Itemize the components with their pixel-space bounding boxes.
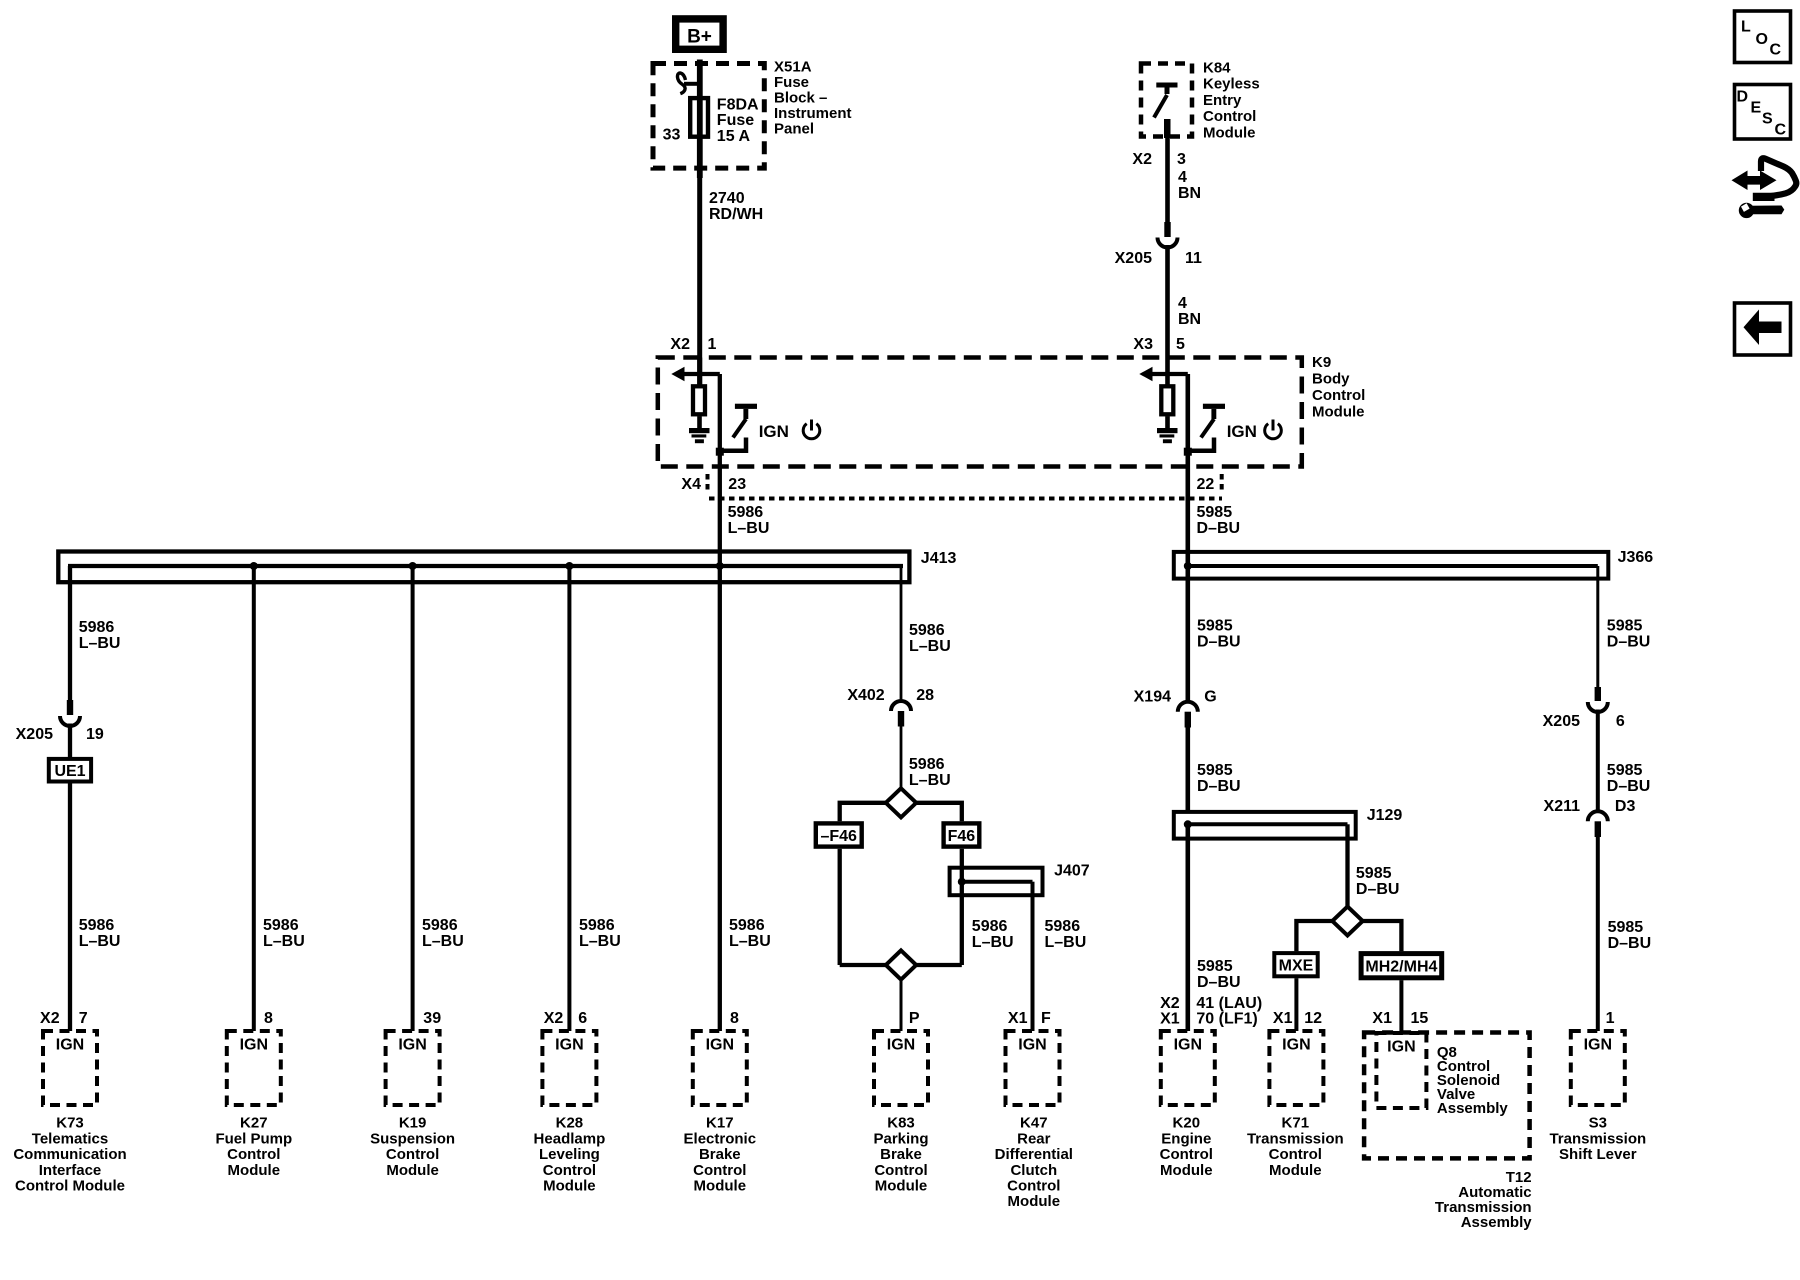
- svg-text:L–BU: L–BU: [1045, 934, 1087, 951]
- svg-text:5: 5: [1176, 336, 1185, 353]
- module K71 dashed box: [1269, 1031, 1323, 1105]
- svg-text:IGN: IGN: [1227, 422, 1257, 441]
- svg-text:S: S: [1762, 110, 1773, 127]
- svg-text:BN: BN: [1178, 185, 1201, 202]
- connector X4 left dash: [706, 474, 710, 494]
- svg-text:Control: Control: [874, 1162, 927, 1179]
- svg-text:C: C: [1775, 121, 1787, 138]
- svg-text:L–BU: L–BU: [729, 933, 771, 950]
- pin label X4 23: [681, 476, 746, 493]
- keyless entry module K84 dashed box: [1141, 64, 1192, 137]
- svg-text:5985: 5985: [1356, 865, 1392, 882]
- svg-text:X4: X4: [681, 476, 701, 493]
- svg-text:5986: 5986: [729, 917, 765, 934]
- wire label 5985 D-BU (K20): [1197, 958, 1241, 991]
- svg-text:3: 3: [1177, 151, 1186, 168]
- svg-text:J407: J407: [1054, 862, 1090, 879]
- wire label 5985 D-BU (J129 branch): [1356, 865, 1400, 898]
- svg-text:L–BU: L–BU: [422, 933, 464, 950]
- splice pack J366 inner bus bar: [1188, 564, 1598, 568]
- wire label 5986 L-BU (K47 branch): [1045, 918, 1087, 951]
- pin label X2 1 (K9 left input): [670, 336, 716, 353]
- wire 4 BN lower segment: [1165, 245, 1170, 358]
- icon LOC box: [1735, 11, 1791, 63]
- wire splice to -F46: [840, 803, 886, 821]
- wire K27 column: [252, 566, 256, 1031]
- svg-text:X1: X1: [1372, 1010, 1392, 1027]
- svg-text:8: 8: [730, 1010, 739, 1027]
- module K27 dashed box: [227, 1031, 281, 1105]
- internal arrow right: [1139, 367, 1188, 381]
- svg-text:F: F: [1041, 1010, 1051, 1027]
- junction dot J413/K28: [565, 562, 573, 570]
- svg-text:1: 1: [1606, 1010, 1615, 1027]
- switch inside K84: [1154, 83, 1178, 139]
- wire 2740 RD/WH: [697, 168, 702, 384]
- ignition switch right: [1188, 404, 1225, 451]
- icon wrench: [1739, 203, 1785, 218]
- svg-text:IGN: IGN: [240, 1037, 268, 1054]
- wire F46 down through J407: [960, 849, 964, 965]
- wire J366 to X205-6: [1596, 566, 1599, 687]
- svg-text:S3: S3: [1589, 1115, 1607, 1132]
- inline connector X194 pin G: [1178, 702, 1198, 728]
- wire J407 to K47: [1031, 882, 1035, 1031]
- connector X4 dotted bottom line: [709, 497, 1222, 501]
- wire J413 to X402: [900, 566, 903, 701]
- main right drop wire (pin 22 to X194): [1186, 374, 1191, 702]
- svg-text:J366: J366: [1618, 549, 1654, 566]
- connector label X205 19: [16, 726, 104, 743]
- svg-text:X194: X194: [1134, 689, 1171, 706]
- svg-text:X1: X1: [1273, 1010, 1293, 1027]
- svg-text:X51A: X51A: [774, 58, 812, 75]
- svg-text:Control: Control: [1269, 1146, 1322, 1163]
- svg-text:Leveling: Leveling: [539, 1146, 600, 1163]
- wire K28 column: [567, 566, 571, 1031]
- wire J129 to K20: [1186, 824, 1191, 1031]
- module K47 dashed box: [1006, 1031, 1060, 1105]
- junction dot J366: [1184, 562, 1192, 570]
- svg-text:K27: K27: [240, 1115, 268, 1132]
- fuse option box -F46: [816, 823, 862, 846]
- wire label 4 BN: [1178, 169, 1201, 202]
- svg-text:70 (LF1): 70 (LF1): [1196, 1010, 1257, 1027]
- svg-text:11: 11: [1185, 250, 1202, 267]
- inline connector X205 pin 11: [1158, 222, 1178, 248]
- svg-text:15 A: 15 A: [717, 128, 751, 145]
- svg-text:33: 33: [663, 127, 681, 144]
- svg-text:12: 12: [1304, 1010, 1322, 1027]
- wire label 5986 L-BU (K83 branch): [972, 918, 1014, 951]
- svg-text:L–BU: L–BU: [263, 933, 305, 950]
- module K83 dashed box: [874, 1031, 928, 1105]
- svg-text:IGN: IGN: [1387, 1039, 1415, 1056]
- option box MH2/MH4: [1361, 954, 1442, 978]
- svg-text:IGN: IGN: [1282, 1037, 1310, 1054]
- svg-text:22: 22: [1197, 476, 1215, 493]
- svg-text:B+: B+: [687, 27, 712, 48]
- svg-text:D–BU: D–BU: [1356, 881, 1400, 898]
- svg-text:19: 19: [86, 726, 104, 743]
- svg-text:5986: 5986: [79, 619, 115, 636]
- svg-text:4: 4: [1178, 169, 1187, 186]
- svg-text:Control: Control: [1203, 108, 1256, 125]
- svg-text:–F46: –F46: [820, 828, 857, 845]
- wire label 5986 L-BU (pin 23): [728, 504, 770, 537]
- svg-text:5985: 5985: [1197, 958, 1233, 975]
- wire label 5986 L-BU (K28 column): [579, 917, 621, 950]
- svg-text:Control: Control: [693, 1162, 746, 1179]
- wire label 5985 D-BU (pin 22): [1197, 504, 1241, 537]
- pin label X2 41 (LAU): [1160, 995, 1262, 1012]
- svg-text:Keyless: Keyless: [1203, 76, 1260, 93]
- wire K19 column: [411, 566, 415, 1031]
- svg-text:X211: X211: [1544, 798, 1581, 815]
- fuse block X51A dashed box: [653, 64, 764, 169]
- svg-text:D3: D3: [1615, 798, 1636, 815]
- pin label X2 3: [1132, 151, 1186, 168]
- internal arrow left (circuit continues): [671, 367, 720, 381]
- svg-text:P: P: [909, 1010, 920, 1027]
- wire B+ feed into fuse block: [697, 60, 703, 179]
- wire X2-1 into resistor: [697, 358, 702, 386]
- label K20 Engine Control Module: [1160, 1115, 1213, 1179]
- svg-text:Control Module: Control Module: [15, 1178, 125, 1195]
- junction dot J129: [1184, 820, 1192, 828]
- svg-text:Shift Lever: Shift Lever: [1559, 1146, 1637, 1163]
- wire label 5986 L-BU (bus left): [79, 619, 121, 652]
- svg-text:L–BU: L–BU: [579, 933, 621, 950]
- svg-text:Control: Control: [1160, 1146, 1213, 1163]
- module S3 dashed box: [1571, 1031, 1625, 1105]
- svg-text:MH2/MH4: MH2/MH4: [1365, 959, 1437, 976]
- svg-text:5985: 5985: [1608, 919, 1644, 936]
- option box MXE: [1274, 953, 1317, 976]
- svg-text:D–BU: D–BU: [1607, 634, 1651, 651]
- svg-text:Fuse: Fuse: [774, 74, 809, 91]
- svg-text:5986: 5986: [579, 917, 615, 934]
- svg-text:K19: K19: [399, 1115, 427, 1132]
- svg-text:8: 8: [264, 1010, 273, 1027]
- svg-text:Module: Module: [543, 1178, 596, 1195]
- svg-text:K20: K20: [1173, 1115, 1201, 1132]
- wire splice to F46: [916, 803, 962, 821]
- svg-text:E: E: [1751, 100, 1762, 117]
- svg-text:Instrument: Instrument: [774, 105, 852, 122]
- ignition switch left: [720, 404, 757, 451]
- svg-text:Module: Module: [1269, 1162, 1322, 1179]
- svg-text:Module: Module: [1008, 1193, 1061, 1210]
- svg-text:IGN: IGN: [887, 1037, 915, 1054]
- connector label X205 11: [1115, 250, 1202, 267]
- svg-text:23: 23: [728, 476, 746, 493]
- fuse UE1 box: [49, 759, 91, 782]
- svg-text:L–BU: L–BU: [79, 635, 121, 652]
- wire label 5985 D-BU (J366 left): [1197, 618, 1241, 651]
- label K27 Fuel Pump Control Module: [215, 1115, 292, 1179]
- svg-text:5985: 5985: [1197, 762, 1233, 779]
- pin label X1 12 (K71): [1273, 1010, 1322, 1027]
- connector X4 right dash: [1220, 474, 1224, 494]
- svg-text:Module: Module: [1160, 1162, 1213, 1179]
- pin label X2 7: [40, 1010, 88, 1027]
- wire label 5986 L-BU (bus right): [909, 622, 951, 655]
- label Q8 Control Solenoid Valve Assembly: [1437, 1044, 1509, 1117]
- svg-text:D–BU: D–BU: [1197, 520, 1241, 537]
- pin label X2 6 (K28): [544, 1010, 588, 1027]
- svg-text:Assembly: Assembly: [1437, 1100, 1509, 1117]
- wire label 5986 L-BU (K27 column): [263, 917, 305, 950]
- ground left: [689, 416, 710, 443]
- label T12 Automatic Transmission Assembly: [1435, 1169, 1532, 1231]
- svg-text:Differential: Differential: [995, 1146, 1073, 1163]
- inline connector X211 pin D3: [1588, 811, 1608, 837]
- module K73 dashed box: [43, 1031, 97, 1105]
- battery feed B+: [676, 19, 723, 49]
- svg-text:Engine: Engine: [1161, 1130, 1211, 1147]
- svg-text:4: 4: [1178, 295, 1187, 312]
- solenoid Q8 dashed box: [1376, 1033, 1426, 1108]
- main left drop wire (pin 23 to K17): [718, 374, 722, 1031]
- svg-text:7: 7: [79, 1010, 88, 1027]
- svg-text:Clutch: Clutch: [1010, 1162, 1057, 1179]
- svg-text:5986: 5986: [79, 917, 115, 934]
- svg-text:5985: 5985: [1197, 504, 1233, 521]
- icon back arrow box: [1735, 303, 1791, 355]
- wire 4 BN upper segment: [1165, 138, 1170, 222]
- svg-text:X402: X402: [847, 687, 884, 704]
- svg-text:Module: Module: [875, 1178, 928, 1195]
- wire label 5985 D-BU (X194): [1197, 762, 1241, 795]
- module K19 dashed box: [386, 1031, 440, 1105]
- junction at left switch output: [716, 448, 724, 456]
- svg-text:IGN: IGN: [398, 1037, 426, 1054]
- svg-text:Fuel Pump: Fuel Pump: [215, 1130, 292, 1147]
- wire splice to K83: [900, 980, 903, 1031]
- svg-text:Transmission: Transmission: [1247, 1130, 1344, 1147]
- pin label X3 5: [1133, 336, 1185, 353]
- svg-text:X2: X2: [40, 1010, 60, 1027]
- svg-text:5986: 5986: [263, 917, 299, 934]
- module K20 dashed box: [1161, 1031, 1215, 1105]
- svg-text:J413: J413: [921, 550, 957, 567]
- svg-text:K17: K17: [706, 1115, 734, 1132]
- svg-text:Electronic: Electronic: [684, 1130, 757, 1147]
- wire X211 to S3: [1596, 837, 1600, 1031]
- svg-text:Brake: Brake: [699, 1146, 741, 1163]
- resistor (right pull-down): [1161, 386, 1173, 414]
- svg-text:IGN: IGN: [555, 1037, 583, 1054]
- svg-text:2740: 2740: [709, 190, 745, 207]
- svg-text:IGN: IGN: [759, 422, 789, 441]
- power symbol right: [1265, 420, 1282, 439]
- label X51A Fuse Block - Instrument Panel: [774, 58, 852, 137]
- wire X194 to J129: [1186, 728, 1191, 812]
- svg-text:5985: 5985: [1607, 762, 1643, 779]
- svg-text:L–BU: L–BU: [909, 638, 951, 655]
- module K28 dashed box: [542, 1031, 596, 1105]
- svg-text:IGN: IGN: [1018, 1037, 1046, 1054]
- fuse value label F8DA Fuse 15 A: [717, 97, 759, 145]
- svg-text:5985: 5985: [1197, 618, 1233, 635]
- terminal clip symbol: [677, 73, 697, 94]
- svg-text:RD/WH: RD/WH: [709, 206, 763, 223]
- svg-text:39: 39: [423, 1010, 441, 1027]
- svg-text:Body: Body: [1312, 371, 1350, 388]
- svg-text:UE1: UE1: [54, 763, 85, 780]
- svg-text:X2: X2: [1160, 995, 1180, 1012]
- wire bottom connecting -F46 and F46: [840, 963, 962, 967]
- wire MH2/MH4 to Q8: [1399, 980, 1403, 1031]
- junction dot J407: [958, 878, 966, 886]
- svg-text:O: O: [1756, 31, 1768, 48]
- svg-text:Panel: Panel: [774, 121, 814, 138]
- svg-text:Headlamp: Headlamp: [534, 1130, 606, 1147]
- svg-text:D–BU: D–BU: [1197, 634, 1241, 651]
- splice pack J413 inner bus bar: [68, 564, 903, 568]
- svg-text:X2: X2: [544, 1010, 564, 1027]
- label K17 Electronic Brake Control Module: [684, 1115, 757, 1195]
- power symbol left: [803, 420, 820, 439]
- label K83 Parking Brake Control Module: [873, 1115, 928, 1195]
- svg-text:D: D: [1737, 89, 1749, 106]
- svg-text:Module: Module: [1312, 404, 1365, 421]
- connector label X402 28: [847, 687, 934, 704]
- svg-text:Module: Module: [694, 1178, 747, 1195]
- svg-text:Block –: Block –: [774, 90, 827, 107]
- label S3 Transmission Shift Lever: [1549, 1115, 1646, 1163]
- label K9 Body Control Module: [1312, 354, 1365, 421]
- module K17 dashed box: [693, 1031, 747, 1105]
- pin label X1 70 (LF1): [1160, 1010, 1258, 1027]
- junction dot J413/K27: [250, 562, 258, 570]
- fuse option box F46: [944, 823, 980, 846]
- svg-text:1: 1: [708, 336, 717, 353]
- svg-text:6: 6: [578, 1010, 587, 1027]
- pin label X1 F (K47): [1008, 1010, 1051, 1027]
- wire X402 to splice: [900, 727, 903, 789]
- svg-text:L–BU: L–BU: [909, 772, 951, 789]
- icon bent outline arrow: [1753, 158, 1797, 197]
- wire label 4 BN lower: [1178, 295, 1201, 328]
- inline connector X205 pin 6: [1588, 687, 1608, 712]
- splice pack J407 inner bus bar: [962, 880, 1033, 884]
- connector label X211 D3: [1544, 798, 1636, 815]
- svg-text:5986: 5986: [972, 918, 1008, 935]
- svg-text:D–BU: D–BU: [1607, 778, 1651, 795]
- junction at right switch output: [1184, 448, 1192, 456]
- splice pack J366 outer box: [1174, 552, 1609, 579]
- wire -F46 down: [838, 849, 842, 965]
- svg-text:D–BU: D–BU: [1608, 935, 1652, 952]
- wire MXE to K71: [1294, 978, 1298, 1031]
- wire J129 to splice diamond: [1345, 824, 1349, 906]
- svg-text:Control: Control: [386, 1146, 439, 1163]
- wire splice to MXE: [1296, 921, 1332, 951]
- svg-text:IGN: IGN: [1584, 1037, 1612, 1054]
- splice diamond right: [1332, 907, 1362, 936]
- svg-text:K84: K84: [1203, 59, 1231, 76]
- svg-text:IGN: IGN: [706, 1037, 734, 1054]
- svg-text:X2: X2: [1132, 151, 1152, 168]
- svg-text:X3: X3: [1133, 336, 1153, 353]
- svg-text:MXE: MXE: [1279, 958, 1314, 975]
- svg-text:C: C: [1770, 42, 1782, 59]
- svg-text:Control: Control: [227, 1146, 280, 1163]
- connector label X205 6: [1543, 713, 1625, 730]
- wire label 5986 L-BU (K17 column): [729, 917, 771, 950]
- svg-text:L: L: [1741, 18, 1751, 35]
- svg-text:5986: 5986: [1045, 918, 1081, 935]
- wire label 5986 L-BU (K73 column): [79, 917, 121, 950]
- label K73 Telematics Communication Interface Control Module: [13, 1115, 126, 1195]
- wire label 5985 D-BU (J366 right): [1607, 618, 1651, 651]
- splice pack J129 inner bus bar: [1188, 822, 1348, 826]
- svg-text:X2: X2: [670, 336, 690, 353]
- wire UE1 to K73: [68, 782, 72, 1032]
- svg-text:5986: 5986: [909, 622, 945, 639]
- svg-text:X205: X205: [16, 726, 53, 743]
- wire label 5985 D-BU (S3): [1608, 919, 1652, 952]
- svg-text:Assembly: Assembly: [1461, 1214, 1533, 1231]
- svg-text:28: 28: [916, 687, 934, 704]
- svg-text:X1: X1: [1160, 1010, 1180, 1027]
- junction dot J413/K19: [409, 562, 417, 570]
- svg-text:5986: 5986: [909, 756, 945, 773]
- svg-text:K9: K9: [1312, 354, 1331, 371]
- svg-text:K71: K71: [1282, 1115, 1310, 1132]
- svg-text:Transmission: Transmission: [1549, 1130, 1646, 1147]
- svg-text:5985: 5985: [1607, 618, 1643, 635]
- label K19 Suspension Control Module: [370, 1115, 455, 1179]
- svg-text:Communication: Communication: [13, 1146, 126, 1163]
- svg-text:Interface: Interface: [39, 1162, 102, 1179]
- svg-text:K47: K47: [1020, 1115, 1048, 1132]
- svg-text:Entry: Entry: [1203, 92, 1242, 109]
- splice pack J413 outer box: [58, 552, 909, 583]
- svg-text:Control: Control: [1312, 387, 1365, 404]
- svg-text:IGN: IGN: [1174, 1037, 1202, 1054]
- svg-text:Control: Control: [543, 1162, 596, 1179]
- svg-text:D–BU: D–BU: [1197, 778, 1241, 795]
- connector label X194 G: [1134, 689, 1217, 706]
- label K28 Headlamp Leveling Control Module: [534, 1115, 606, 1195]
- assembly T12 dashed box: [1364, 1033, 1530, 1159]
- svg-text:X205: X205: [1543, 713, 1580, 730]
- svg-text:K83: K83: [887, 1115, 915, 1132]
- svg-text:D–BU: D–BU: [1197, 974, 1241, 991]
- svg-text:6: 6: [1616, 713, 1625, 730]
- wire splice to MH2/MH4: [1363, 921, 1402, 951]
- svg-text:Suspension: Suspension: [370, 1130, 455, 1147]
- svg-text:5986: 5986: [728, 504, 764, 521]
- svg-text:IGN: IGN: [56, 1037, 84, 1054]
- inline connector X402 pin 28: [891, 701, 911, 727]
- svg-text:Module: Module: [228, 1162, 281, 1179]
- svg-text:K28: K28: [556, 1115, 584, 1132]
- svg-text:Module: Module: [1203, 125, 1256, 142]
- icon DESC box: [1735, 85, 1791, 140]
- svg-text:Parking: Parking: [873, 1130, 928, 1147]
- wire label 5986 L-BU (X402): [909, 756, 951, 789]
- wire label 5986 L-BU (K19 column): [422, 917, 464, 950]
- icon data link double arrow: [1732, 171, 1777, 191]
- svg-text:K73: K73: [56, 1115, 84, 1132]
- svg-text:Rear: Rear: [1017, 1130, 1051, 1147]
- svg-text:41 (LAU): 41 (LAU): [1196, 995, 1262, 1012]
- svg-text:X1: X1: [1008, 1010, 1028, 1027]
